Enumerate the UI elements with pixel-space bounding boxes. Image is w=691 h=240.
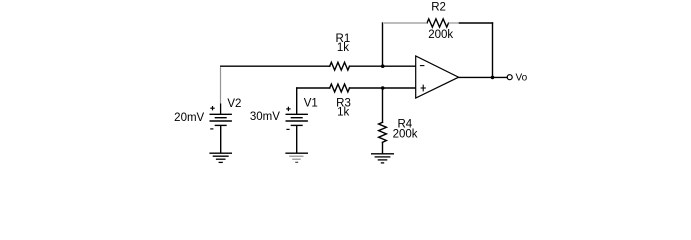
svg-text:200k: 200k xyxy=(393,129,418,141)
svg-text:Vo: Vo xyxy=(516,73,528,84)
svg-text:V2: V2 xyxy=(227,98,241,110)
svg-text:V1: V1 xyxy=(304,98,318,110)
svg-text:20mV: 20mV xyxy=(174,112,204,124)
svg-text:1k: 1k xyxy=(337,42,349,54)
svg-text:R2: R2 xyxy=(431,2,446,14)
svg-text:200k: 200k xyxy=(428,29,453,41)
svg-text:1k: 1k xyxy=(337,107,349,119)
svg-text:30mV: 30mV xyxy=(250,111,280,123)
